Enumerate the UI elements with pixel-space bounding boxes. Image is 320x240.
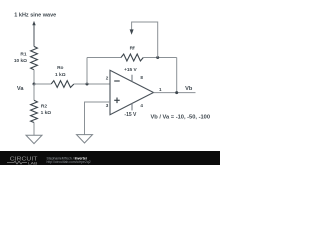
pin 3 wire to ground	[85, 102, 111, 135]
svg-text:http://circuitlab.com/c/epe2q2: http://circuitlab.com/c/epe2q2	[47, 160, 91, 164]
junction top arrow tap	[156, 56, 159, 59]
wire R2 to ground	[33, 123, 35, 136]
svg-text:-15 V: -15 V	[124, 112, 137, 118]
junction output node	[175, 91, 178, 94]
svg-text:2: 2	[106, 75, 109, 80]
op-amp V- stub	[131, 103, 133, 110]
svg-text:10 kΩ: 10 kΩ	[14, 58, 27, 64]
op-amp plus sign	[114, 99, 120, 101]
CircuitLab logo resistor glyph	[14, 161, 22, 164]
wire R1 to node Va	[33, 70, 35, 84]
svg-text:+15 V: +15 V	[124, 67, 137, 73]
wire feedback right vertical	[176, 58, 178, 93]
svg-text:Ro: Ro	[57, 65, 63, 71]
svg-text:1 kΩ: 1 kΩ	[41, 110, 52, 116]
wire Va to Ro	[34, 83, 51, 85]
svg-text:Vb: Vb	[185, 86, 193, 92]
wire feedback vertical (left)	[86, 58, 88, 85]
op-amp U1 triangle	[110, 70, 154, 114]
node Va junction	[33, 83, 36, 86]
svg-text:LAB: LAB	[28, 160, 38, 165]
svg-text:4: 4	[140, 103, 143, 108]
wire feedback horizontal to Rf	[87, 57, 121, 59]
annotation arrow (pointing down at Rf) wire	[132, 22, 158, 58]
wire Ro to op-amp pin 2	[74, 83, 110, 85]
svg-text:1 kΩ: 1 kΩ	[55, 72, 66, 78]
annotation arrowhead down	[130, 29, 134, 34]
svg-text:1 kHz sine wave: 1 kHz sine wave	[14, 13, 56, 19]
watermark bar	[0, 151, 220, 165]
CircuitLab logo wire left	[7, 162, 14, 164]
ground (right)	[77, 135, 93, 143]
svg-text:1: 1	[159, 87, 162, 92]
resistor Ro	[51, 81, 74, 88]
wire Rf to right corner	[143, 57, 176, 59]
svg-text:3: 3	[106, 103, 109, 108]
op-amp minus sign	[114, 80, 120, 82]
resistor R1	[31, 46, 38, 69]
junction feedback tap	[86, 83, 89, 86]
CircuitLab logo wire right	[22, 162, 27, 164]
svg-text:Vb / Va = -10, -50, -100: Vb / Va = -10, -50, -100	[151, 115, 211, 121]
svg-text:R1: R1	[20, 52, 26, 58]
resistor R2	[33, 84, 35, 100]
svg-text:R2: R2	[41, 103, 47, 109]
svg-text:8: 8	[140, 75, 143, 80]
op-amp V+ stub	[131, 75, 133, 82]
svg-text:Va: Va	[17, 86, 24, 92]
output wire pin 1	[154, 92, 196, 94]
svg-text:Rf: Rf	[130, 46, 135, 52]
annotation arrow (input, pointing up)	[33, 24, 35, 46]
ground (left)	[26, 135, 42, 143]
resistor Rf	[121, 54, 143, 61]
